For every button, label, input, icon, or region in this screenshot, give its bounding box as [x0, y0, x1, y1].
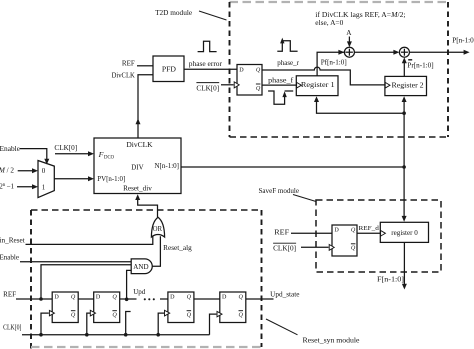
- svg-text:Q: Q: [112, 313, 117, 319]
- svg-text:Q: Q: [239, 295, 244, 301]
- svg-text:OR: OR: [153, 226, 163, 233]
- svg-text:F[n-1:0]: F[n-1:0]: [377, 275, 404, 283]
- wire 2^n-1 to mux 1: [17, 186, 35, 188]
- arrow CLK to Fdco: [88, 151, 94, 156]
- wire clk tap FF A: [41, 313, 49, 335]
- arrow N into Register1: [314, 96, 319, 102]
- pulse above phase_r: [277, 41, 297, 52]
- svg-text:D: D: [170, 295, 175, 301]
- pulse below phase_f: [268, 91, 293, 104]
- wire CLK[0]bar to DFF2 clk: [301, 246, 329, 248]
- svg-text:Q: Q: [112, 295, 117, 301]
- svg-text:Q: Q: [71, 295, 76, 301]
- svg-text:Q: Q: [239, 313, 244, 319]
- svg-text:0: 0: [42, 167, 46, 175]
- wire FFD Q to Upd_state: [246, 298, 274, 300]
- svg-text:F: F: [98, 150, 104, 159]
- pointer Reset_syn: [266, 319, 298, 335]
- wire mux out to DIV PV: [54, 178, 90, 180]
- D flip-flop FF C: [168, 292, 194, 323]
- svg-text:REF: REF: [3, 291, 16, 299]
- svg-text:Q: Q: [187, 313, 192, 319]
- arrow mux select down: [44, 159, 49, 165]
- wire DivCLK DIV to PFD: [138, 75, 153, 138]
- wire Enable to mux select: [20, 149, 47, 160]
- wire Pf Register1 to adder: [317, 52, 345, 76]
- arrow Reset_div: [135, 194, 140, 200]
- arrow Pr into adder2: [402, 57, 407, 63]
- pulse glyphs: [198, 41, 298, 105]
- pointer T2D: [199, 11, 227, 20]
- wire Pr Register2 to adder2: [403, 61, 405, 76]
- register 0: [380, 222, 428, 242]
- svg-text:Q: Q: [351, 228, 356, 234]
- PFD U1: [153, 56, 184, 82]
- junction CLK tap C: [156, 333, 160, 337]
- wire Reset_div from OR: [138, 197, 158, 217]
- junction REF / AND branch: [39, 297, 43, 301]
- svg-text:Q: Q: [256, 68, 261, 74]
- svg-text:Upd_state: Upd_state: [270, 291, 299, 299]
- D flip-flop FF D: [220, 292, 246, 323]
- D flip-flop U3 (T2D): [237, 65, 262, 96]
- junction N net / SaveF branch: [402, 165, 406, 169]
- wire CLK[0] line: [22, 334, 210, 336]
- mux M1: [38, 161, 54, 198]
- svg-text:N[n-1:0]: N[n-1:0]: [155, 162, 180, 170]
- arrow Pf into adder1: [338, 50, 344, 55]
- wire CLK[0]bar to DFF clk: [221, 84, 234, 86]
- junction CLK tap B: [85, 333, 89, 337]
- arrow P out: [464, 50, 470, 55]
- svg-text:DCO: DCO: [104, 156, 115, 161]
- overline CLK[0] T2D: [196, 82, 219, 84]
- flip flop port labels: [54, 68, 356, 319]
- arrow 2^n-1: [32, 184, 38, 189]
- wire adder2 to P output: [410, 51, 466, 53]
- DIV U2: [94, 138, 181, 194]
- svg-text:Pr[n-1:0]: Pr[n-1:0]: [407, 62, 433, 70]
- svg-text:CLK[0]: CLK[0]: [3, 324, 21, 332]
- svg-text:P[n-1:0]: P[n-1:0]: [452, 37, 474, 45]
- pulse above phase error: [198, 41, 217, 51]
- svg-text:D: D: [239, 68, 244, 74]
- svg-text:A: A: [346, 29, 352, 37]
- svg-text:CLK[0]: CLK[0]: [196, 84, 219, 92]
- svg-text:CLK[0]: CLK[0]: [273, 245, 296, 253]
- arrow M/2: [32, 168, 38, 173]
- svg-text:Q: Q: [187, 295, 192, 301]
- svg-text:D: D: [334, 228, 339, 234]
- svg-text:Enable: Enable: [0, 253, 19, 261]
- svg-text:phase error: phase error: [189, 60, 223, 68]
- arrow N into register0: [402, 216, 407, 222]
- wire A into adder: [348, 37, 350, 44]
- wire REF to DFF2: [291, 232, 332, 234]
- dots ...: [144, 298, 155, 300]
- svg-text:in_Reset: in_Reset: [0, 236, 25, 244]
- wire REF to PFD: [137, 65, 153, 67]
- Register 2: [385, 76, 427, 95]
- overlines: [196, 83, 296, 244]
- arrow adder1 to adder2: [393, 50, 399, 55]
- wire dots to FFC: [160, 298, 168, 300]
- wire AND out to OR: [152, 236, 160, 266]
- wire N net: [181, 100, 404, 219]
- junction CLK tap stub: [124, 333, 128, 337]
- svg-text:Register 1: Register 1: [301, 81, 335, 89]
- arrow mux out: [88, 176, 94, 181]
- svg-text:Reset_alg: Reset_alg: [163, 244, 192, 252]
- AND gate: [131, 259, 152, 274]
- wire phase_r with hop: [262, 67, 385, 85]
- svg-text:SaveF module: SaveF module: [259, 186, 300, 195]
- svg-text:Q: Q: [256, 86, 261, 92]
- OR gate: [151, 217, 164, 237]
- arrow F out: [402, 284, 407, 290]
- svg-text:D: D: [222, 295, 227, 301]
- T2D module dashed box: [230, 2, 449, 137]
- Register 1: [296, 76, 338, 96]
- wire clk tap FF B: [87, 313, 91, 335]
- svg-text:else, A=0: else, A=0: [315, 18, 343, 27]
- pointer SaveF: [293, 195, 316, 202]
- svg-text:DivCLK: DivCLK: [112, 72, 136, 80]
- svg-text:REF: REF: [274, 228, 289, 236]
- minus sign of adder U5: [408, 59, 412, 61]
- wire Upd branch to AND: [127, 270, 132, 299]
- wire M/2 to mux 0: [18, 170, 35, 172]
- svg-text:REF: REF: [122, 60, 135, 68]
- overline CLK[0] SaveF: [273, 242, 296, 244]
- wire clk tap FF C: [158, 313, 164, 335]
- wire FFC Q to FFD D: [194, 298, 220, 300]
- wire phase error PFD to DFF: [184, 68, 237, 70]
- wire in_Reset to OR: [26, 236, 153, 245]
- arrowheads: [32, 41, 470, 336]
- svg-text:PFD: PFD: [162, 65, 176, 74]
- SaveF module dashed box: [316, 200, 441, 272]
- arrow on phase_r pulse: [280, 38, 284, 44]
- svg-text:M / 2: M / 2: [0, 167, 14, 175]
- svg-text:Upd: Upd: [133, 288, 145, 296]
- svg-text:phase_r: phase_r: [277, 59, 299, 67]
- svg-text:DivCLK: DivCLK: [126, 141, 153, 149]
- svg-text:Register 2: Register 2: [392, 81, 425, 89]
- svg-text:Pf[n-1:0]: Pf[n-1:0]: [321, 59, 347, 67]
- wire F output: [403, 242, 405, 286]
- svg-text:REF_d: REF_d: [359, 225, 380, 232]
- wire FFB Q to dots: [120, 298, 137, 300]
- svg-text:D: D: [96, 295, 101, 301]
- svg-text:Enable: Enable: [0, 145, 20, 153]
- svg-text:register 0: register 0: [391, 229, 418, 237]
- junction Upd: [125, 298, 129, 302]
- svg-text:Reset_div: Reset_div: [123, 184, 152, 192]
- wire CLK[0] to DIV Fdco: [55, 153, 91, 155]
- arrow N into Register2: [402, 96, 407, 102]
- wire phase_f: [262, 84, 296, 86]
- wire clk tap FF D: [210, 314, 217, 335]
- adder U4: [344, 47, 354, 57]
- wire REF_d DFF2 to register0: [357, 232, 380, 234]
- junction CLK tap A: [39, 333, 43, 337]
- pointer lines: [199, 11, 316, 335]
- svg-text:Reset_syn module: Reset_syn module: [303, 336, 361, 345]
- wire REF into FF A: [16, 298, 52, 300]
- svg-text:PV[n-1:0]: PV[n-1:0]: [97, 175, 125, 183]
- wire Enable to AND: [20, 261, 131, 263]
- svg-text:D: D: [54, 295, 59, 301]
- wire adder1 to adder2: [355, 51, 397, 53]
- wire FFA Q to FFB D: [78, 298, 94, 300]
- arrow A into adder1: [347, 41, 352, 47]
- svg-text:Q: Q: [351, 246, 356, 252]
- svg-text:1: 1: [42, 183, 46, 191]
- svg-text:phase_f: phase_f: [268, 77, 294, 85]
- svg-text:T2D module: T2D module: [155, 8, 193, 17]
- D flip-flop FF A: [52, 292, 78, 323]
- arrow DivCLK up mid: [136, 119, 141, 125]
- svg-text:2n−1: 2n−1: [0, 183, 15, 191]
- Qbar overlines: [71, 84, 356, 311]
- Reset_syn module dashed box: [31, 210, 262, 349]
- wire REF branch to AND: [41, 265, 131, 299]
- junction N net / register data: [402, 111, 406, 115]
- arrow on phase_f pulse: [282, 91, 286, 97]
- svg-text:DIV: DIV: [131, 163, 144, 171]
- adder U5: [399, 47, 409, 57]
- svg-text:CLK[0]: CLK[0]: [54, 144, 77, 152]
- wire clk stub dots: [126, 312, 131, 335]
- svg-text:AND: AND: [133, 264, 148, 271]
- svg-text:Q: Q: [71, 313, 76, 319]
- D flip-flop FF B: [94, 292, 120, 323]
- D flip-flop U6 (SaveF): [332, 225, 357, 256]
